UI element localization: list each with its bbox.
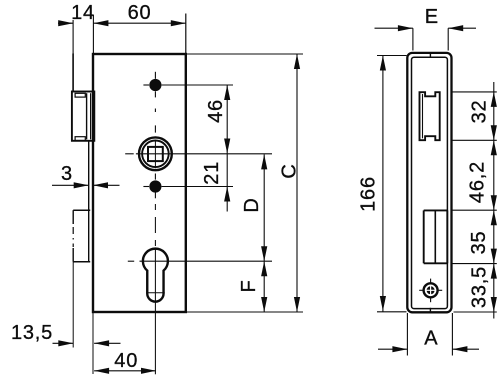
- extension line case left bottom: [92, 312, 94, 374]
- extension line 166 top: [377, 55, 407, 57]
- dim line 3 left tail: [52, 184, 89, 186]
- arrow 35 bottom (down): [491, 249, 497, 264]
- arrow F top (up): [261, 261, 267, 276]
- latch bolt inner line: [422, 94, 424, 138]
- cylinder small circle crosshair: [146, 292, 164, 294]
- svg-text:A: A: [424, 328, 438, 350]
- svg-text:60: 60: [128, 2, 152, 24]
- deadbolt slot left edge: [423, 210, 425, 263]
- extension line hole top: [162, 84, 233, 86]
- arrow 3 right (pointing left): [93, 182, 108, 188]
- screw slot horizontal (white): [426, 289, 435, 291]
- arrow 46 top (up): [224, 85, 230, 100]
- faceplate bottom seam tick: [429, 308, 431, 314]
- faceplate edge line 3mm: [88, 141, 90, 262]
- arrow C bottom (down): [294, 297, 300, 312]
- lower box left edge lower: [72, 248, 74, 262]
- svg-text:3: 3: [61, 163, 73, 185]
- faceplate left edge upper (ext above): [72, 20, 74, 54]
- hole top centerline v below: [154, 91, 156, 97]
- screw crosshair right: [437, 289, 442, 291]
- arrow tip 14 left (outside, pointing right): [58, 20, 73, 26]
- spindle outer circle: [139, 137, 172, 170]
- dim line E left tail: [375, 27, 413, 29]
- spindle square hole: [148, 147, 163, 161]
- spindle inner circle: [142, 141, 169, 168]
- extension line latch top: [452, 91, 497, 93]
- lower box bottom edge: [73, 261, 90, 263]
- arrow 60 right (pointing right): [171, 20, 186, 26]
- extension line 166 bottom: [377, 311, 407, 313]
- arrow 46 bottom / 21 top (down): [224, 139, 230, 154]
- dim line D: [263, 154, 265, 261]
- dim line F: [263, 261, 265, 312]
- latch bolt in faceplate slot: [420, 92, 440, 140]
- dim line 3 right tail: [93, 184, 120, 186]
- chain dim line right: [493, 82, 495, 319]
- hole bottom centerline v below: [154, 192, 156, 198]
- screw outer circle: [424, 283, 438, 297]
- svg-text:C: C: [279, 163, 301, 178]
- arrow 13,5 right (pointing left): [94, 340, 109, 346]
- extension line plate bottom right: [454, 311, 497, 313]
- svg-text:32: 32: [469, 100, 491, 124]
- latch box inner line 2: [90, 93, 92, 139]
- axis centerline dash 2: [154, 217, 156, 233]
- extension line slot top: [452, 209, 497, 211]
- arrow 13,5 left (pointing right): [58, 340, 73, 346]
- arrow 46,2 bottom (down): [491, 195, 497, 210]
- latch box top tab: [75, 93, 85, 97]
- svg-text:E: E: [425, 6, 439, 28]
- arrow C top (up): [294, 54, 300, 69]
- extension line slot bottom: [452, 263, 497, 265]
- arrow 32 bottom (down): [491, 125, 497, 140]
- dim line A right tail: [452, 348, 479, 350]
- arrow 21 bottom (up): [224, 187, 230, 202]
- hole top centerline v above: [154, 72, 156, 79]
- svg-text:166: 166: [357, 176, 379, 212]
- extension line case left top: [92, 15, 94, 54]
- extension line case bottom: [187, 311, 304, 313]
- axis centerline dash 3: [154, 240, 156, 246]
- dim line C: [296, 54, 298, 312]
- spindle centerline v above: [154, 125, 156, 132]
- dim line 40: [94, 370, 156, 372]
- screw crosshair bottom: [430, 297, 432, 302]
- extension line A left: [406, 313, 408, 356]
- deadbolt front edge line: [434, 211, 436, 263]
- arrow 32 top (up): [491, 92, 497, 107]
- svg-text:14: 14: [71, 2, 95, 24]
- svg-text:21: 21: [201, 161, 223, 185]
- hole top centerline h left: [143, 84, 149, 86]
- spindle crosshair horizontal + extension line: [136, 153, 272, 155]
- deadbolt slot bottom edge: [424, 262, 448, 264]
- arrow 40 left (pointing left): [94, 368, 109, 374]
- arrow 166 top (up): [380, 56, 386, 71]
- arrow 33,5 bottom (down): [491, 297, 497, 312]
- arrow E right (pointing left): [448, 25, 463, 31]
- dim line 46-21: [226, 85, 228, 212]
- svg-text:33,5: 33,5: [469, 266, 491, 308]
- spindle centerline v below: [154, 174, 156, 180]
- screw crosshair top: [430, 279, 432, 284]
- dim line 13,5 right tail: [94, 342, 120, 344]
- dim line 14-60 tail left: [58, 22, 73, 24]
- svg-text:35: 35: [468, 231, 490, 255]
- latch box inner line 1: [86, 93, 88, 139]
- arrow E left (pointing right): [398, 25, 413, 31]
- screw crosshair left: [419, 289, 424, 291]
- arrow 35 top (up): [491, 210, 497, 225]
- hole bottom: [149, 180, 161, 192]
- arrow D bottom (down): [261, 246, 267, 261]
- axis centerline through cylinder: [154, 248, 156, 374]
- svg-text:D: D: [241, 197, 263, 212]
- faceplate plate inner border: [412, 57, 448, 308]
- arrow 40 right (pointing right): [141, 368, 156, 374]
- arrow 46,2 top (up): [491, 140, 497, 155]
- arrow A right (pointing left): [452, 346, 467, 352]
- lower box left edge dash-dot: [72, 227, 74, 247]
- deadbolt slot top edge: [424, 209, 448, 211]
- faceplate top seam tick: [429, 52, 431, 58]
- arrow 33,5 top (up): [491, 264, 497, 279]
- lower box left edge upper: [72, 210, 74, 224]
- arrow D top (up): [261, 154, 267, 169]
- spindle crosshair vertical: [154, 140, 156, 169]
- hole top: [149, 79, 161, 91]
- arrow 3 left (pointing right): [74, 182, 89, 188]
- dim line A left tail: [378, 348, 407, 350]
- latch box outline: [72, 92, 94, 141]
- axis centerline dash 1: [154, 204, 156, 210]
- extension line 13,5 left: [72, 262, 74, 348]
- extension line E right: [447, 28, 449, 50]
- arrow 166 bottom (down): [380, 296, 386, 311]
- faceplate plate outline: [407, 53, 451, 312]
- svg-text:46: 46: [205, 99, 227, 123]
- extension line case right top: [185, 14, 187, 54]
- extension line case top: [187, 53, 304, 55]
- screw slot vertical (white): [430, 286, 432, 295]
- extension line A right: [451, 313, 453, 356]
- deadbolt slot right edge: [446, 210, 448, 263]
- screw inner disc: [427, 286, 435, 294]
- lower box top edge: [73, 209, 90, 211]
- dim line 166: [382, 56, 384, 312]
- spindle centerline h dash left: [125, 153, 134, 155]
- svg-text:46,2: 46,2: [467, 161, 489, 203]
- cylinder crosshair horizontal + extension line: [140, 260, 273, 262]
- arrow A left (pointing right): [392, 346, 407, 352]
- axis centerline dot: [154, 109, 156, 113]
- cylinder centerline h dash left: [128, 260, 134, 262]
- arrow 60 left (pointing left): [93, 20, 108, 26]
- svg-text:40: 40: [114, 350, 138, 372]
- extension line hole bottom: [162, 186, 233, 188]
- svg-text:F: F: [238, 279, 260, 292]
- svg-text:13,5: 13,5: [11, 322, 53, 344]
- cylinder hole euro profile: [143, 249, 168, 302]
- dim line 60: [93, 22, 185, 24]
- hole bottom centerline h left: [143, 186, 149, 188]
- faceplate left edge upper: [72, 54, 74, 92]
- extension line E left: [412, 28, 414, 50]
- extension line latch bottom: [452, 139, 497, 141]
- lock case outline: [93, 54, 186, 312]
- arrow F bottom (down): [261, 297, 267, 312]
- dim line E right tail: [448, 27, 476, 29]
- latch box bottom tab: [75, 137, 85, 141]
- dim line 13,5 left tail: [53, 342, 74, 344]
